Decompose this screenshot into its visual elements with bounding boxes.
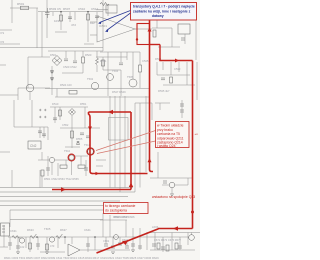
svg-text:472: 472 [71, 23, 76, 27]
wire [87, 237, 89, 252]
svg-text:R561 C562 R563 T512 R565: R561 C562 R563 T512 R565 [44, 177, 79, 181]
resistor R23 [46, 244, 49, 250]
svg-text:R637: R637 [60, 228, 67, 232]
capacitor C24 [84, 168, 88, 170]
resistor R3 [87, 14, 90, 20]
wire [74, 51, 76, 60]
terminal TP1 [189, 235, 195, 241]
arrowhead up on V1 top [148, 28, 152, 32]
svg-text:R555: R555 [76, 137, 83, 141]
highlight circle Q5 [68, 154, 75, 161]
red blob on rect edge [136, 38, 138, 40]
capacitor C25 [8, 243, 12, 245]
resistor R13 [78, 165, 85, 168]
svg-text:zasilanie ku wizji, inne i nas: zasilanie ku wizji, inne i następnie z [133, 9, 191, 13]
blue arrow 2 [107, 13, 131, 31]
ground [111, 252, 115, 254]
svg-text:T505: T505 [127, 75, 134, 79]
wire [103, 57, 121, 70]
wire [56, 89, 58, 98]
IF amplifier triangle [90, 3, 152, 43]
wire [39, 127, 41, 138]
capacitor C10 [42, 134, 46, 136]
wire mid-left [28, 56, 50, 58]
wire [69, 12, 71, 22]
arrowhead right on H6 [61, 187, 66, 191]
svg-text:C545: C545 [142, 59, 149, 63]
ground [45, 252, 49, 254]
svg-text:R503 C5: R503 C5 [49, 7, 61, 11]
capacitor C4 [64, 59, 68, 61]
svg-text:R601 C603 T601 R605 C607 D602: R601 C603 T601 R605 C607 D602 R609 C611 … [4, 256, 159, 260]
wire [107, 4, 109, 16]
resistor R14 [41, 170, 44, 176]
arrowhead left on H5 [108, 110, 113, 114]
ground [131, 250, 135, 252]
wire [94, 237, 96, 250]
resistor R19 [166, 245, 169, 251]
capacitor C3 [95, 16, 99, 18]
wire [46, 0, 48, 30]
capacitor C28 [86, 244, 90, 246]
bus wire 2 [0, 191, 135, 193]
zigzag resistor R15 [12, 236, 20, 239]
resistor R22 [29, 243, 32, 249]
svg-text:102: 102 [20, 245, 25, 249]
wire [134, 103, 136, 192]
wire [124, 118, 126, 188]
wire [139, 72, 141, 88]
svg-text:C520 C522: C520 C522 [63, 65, 77, 69]
svg-text:T605: T605 [44, 227, 51, 231]
arrowhead left on H3 [173, 226, 178, 230]
wire [179, 237, 181, 250]
svg-text:1k2: 1k2 [90, 21, 95, 25]
wire [14, 126, 48, 128]
arrowhead up on V5 [129, 183, 133, 188]
wire [150, 249, 195, 251]
svg-text:C510: C510 [78, 7, 86, 11]
capacitor C2 [68, 17, 72, 19]
wire [84, 107, 86, 128]
wire [40, 251, 65, 253]
wire [96, 160, 106, 166]
annotation wire V1 from note box down [150, 21, 154, 172]
wire [41, 152, 43, 160]
capacitor C22 [138, 246, 142, 248]
wire [96, 12, 98, 20]
wire [41, 12, 43, 48]
bus wire 5 [0, 205, 110, 207]
transistor Q5 [69, 155, 74, 160]
capacitor C12 [80, 133, 84, 135]
annotation wire H5 [89, 111, 132, 113]
capacitor C7 [161, 78, 165, 80]
resistor R18 [157, 243, 160, 249]
svg-text:datowy: datowy [152, 14, 164, 18]
wire [11, 0, 13, 23]
wire [124, 96, 126, 118]
svg-text:D501: D501 [50, 53, 57, 57]
wire [171, 28, 173, 47]
wire [162, 184, 169, 186]
label row bottom [4, 215, 159, 260]
wire [62, 63, 83, 73]
capacitor C18 [111, 246, 115, 248]
wire [51, 66, 53, 95]
bridge rectifier D1 [52, 56, 62, 66]
connector box J2 [1, 223, 10, 236]
wire psu mid rail [50, 106, 88, 108]
annotation wire H3 [158, 228, 193, 230]
wire [71, 160, 73, 175]
wire [135, 102, 152, 104]
bridge X D4 [69, 109, 76, 116]
wire [139, 52, 141, 65]
wire [126, 52, 128, 60]
wire psu top rail [48, 50, 103, 52]
wire top rail [38, 11, 103, 13]
wire [0, 43, 20, 45]
transistor Q10 [49, 237, 54, 242]
svg-text:C552: C552 [62, 123, 69, 127]
svg-text:R547 R549: R547 R549 [112, 90, 126, 94]
leader line 2 to note 2 [97, 141, 156, 154]
capacitor C13 [86, 136, 90, 138]
wire upper right block [152, 27, 172, 29]
wire [195, 20, 197, 60]
svg-text:i wstaw Q24: i wstaw Q24 [157, 144, 176, 148]
capacitor C30 [161, 247, 165, 249]
capacitor C20 [125, 246, 129, 248]
wire [51, 163, 53, 176]
svg-text:R524 100: R524 100 [60, 83, 72, 87]
wire [100, 249, 130, 251]
svg-text:C631: C631 [10, 229, 17, 233]
wire [0, 64, 6, 66]
bus wire 1 [0, 187, 133, 189]
wire [159, 103, 161, 110]
resistor R6 [69, 91, 77, 95]
svg-text:C671 R673 C675 R677: C671 R673 C675 R677 [154, 238, 182, 242]
wire [119, 237, 121, 243]
wire [112, 237, 114, 246]
ground [170, 194, 174, 196]
svg-text:T502: T502 [87, 77, 94, 81]
svg-text:R651 C653 D606: R651 C653 D606 [113, 215, 135, 219]
wire [175, 184, 188, 186]
wire [29, 92, 31, 100]
wire [90, 155, 92, 172]
wire [163, 84, 195, 86]
arrowhead up on V1 bottom [148, 158, 152, 162]
svg-text:103: 103 [54, 19, 59, 23]
wire [119, 96, 121, 118]
transistor Q9 [19, 238, 24, 243]
note box 2 middle right [156, 122, 199, 149]
wire bottom left edge [0, 225, 8, 247]
svg-text:R633: R633 [27, 228, 34, 232]
capacitor C21 [131, 244, 135, 246]
wire [18, 87, 50, 89]
wire [145, 96, 147, 172]
resistor R4 [82, 57, 85, 63]
wire [46, 30, 48, 38]
svg-text:T510: T510 [64, 149, 71, 153]
wire [47, 156, 49, 176]
zigzag resistor R16 [30, 234, 36, 239]
wire [80, 156, 82, 165]
wire [109, 215, 111, 237]
wire [25, 237, 27, 248]
svg-text:R541: R541 [100, 59, 107, 63]
annotation wire H2 [159, 60, 192, 62]
wire grid verticals centre [109, 96, 111, 188]
svg-text:T504: T504 [112, 69, 119, 73]
svg-text:R535 4k7: R535 4k7 [158, 89, 170, 93]
annotation wire H1 [150, 44, 161, 46]
connector box J1 [28, 141, 41, 149]
capacitor C26 [16, 246, 20, 248]
wire [157, 152, 159, 178]
wire [17, 88, 19, 100]
wire [171, 188, 173, 194]
transistor Q6 [88, 149, 94, 155]
label row top [1, 2, 99, 44]
wire [96, 65, 98, 72]
wire bottom centre [102, 213, 104, 237]
wire [65, 146, 80, 148]
wire [41, 176, 43, 187]
svg-text:473: 473 [50, 244, 55, 248]
svg-text:C661: C661 [103, 239, 110, 243]
wire [114, 96, 116, 112]
resistor R5 zigzag [96, 58, 99, 65]
wire bottom rail [8, 236, 188, 238]
note box 3 bottom centre [104, 203, 149, 220]
capacitor C27 [36, 244, 40, 246]
capacitor C11 [53, 118, 57, 120]
wire [162, 62, 164, 70]
capacitor C5 [73, 61, 77, 63]
capacitor C19 [118, 243, 122, 245]
wire [139, 103, 141, 188]
wire [41, 48, 43, 57]
svg-text:P1: P1 [1, 31, 5, 35]
annotation wire V2 [159, 45, 161, 61]
resistor R10 [59, 110, 62, 116]
wire [38, 159, 49, 161]
bus wire 3 [0, 196, 128, 198]
leader line to note 2 [96, 131, 156, 151]
wire [36, 8, 38, 48]
svg-text:C641: C641 [84, 228, 91, 232]
node dot on V3 [191, 211, 194, 214]
zigzag resistor R17 [56, 234, 62, 239]
wire [57, 237, 59, 248]
wire [74, 12, 76, 20]
capacitor C15 [180, 110, 184, 112]
wire [80, 249, 100, 251]
transistor Q2 [91, 82, 98, 89]
wire [82, 51, 84, 57]
wire [60, 12, 62, 24]
capacitor C14 [180, 104, 184, 106]
wire [107, 52, 109, 96]
wire centre block [100, 51, 140, 53]
wire [132, 228, 134, 250]
wire [178, 62, 180, 72]
transistor Q11 [114, 235, 119, 240]
polarity marks [39, 109, 46, 118]
wire [90, 22, 97, 35]
wire [47, 127, 49, 140]
transistor Q8 [169, 182, 175, 188]
wire [9, 237, 11, 250]
wire top-left horizontal [10, 7, 38, 9]
svg-text:to tkrzego czerkanie: to tkrzego czerkanie [105, 204, 135, 208]
highlight rectangle on tuner [137, 24, 150, 45]
wire right lower block [150, 177, 192, 179]
transistor Q7 [49, 157, 54, 162]
arrowhead on diagonal [122, 241, 128, 246]
wire [96, 51, 98, 58]
wire [102, 0, 104, 51]
arrowhead down on V4 [88, 127, 92, 131]
transistor Q3 [107, 74, 114, 81]
svg-text:R507: R507 [63, 7, 71, 11]
annotation wire H6 [52, 189, 131, 191]
wire [9, 210, 11, 227]
diode D5 [77, 141, 80, 145]
svg-text:tranzystory Q,4,1 i 7 - podejr: tranzystory Q,4,1 i 7 - podejrz napięcie [133, 5, 195, 9]
arrowhead right on H4 [96, 172, 100, 176]
wire [31, 100, 33, 127]
wire [65, 160, 67, 165]
wire [139, 228, 141, 250]
svg-text:R551: R551 [80, 102, 87, 106]
wire [85, 160, 87, 176]
wire [64, 237, 66, 244]
bus wire 4 [0, 200, 120, 202]
wire [59, 107, 61, 120]
resistor R7 [153, 30, 156, 37]
bus wire 7 [10, 219, 103, 221]
note box 1 top right [98, 3, 197, 33]
node dot [87, 11, 89, 13]
svg-text:R520: R520 [85, 53, 92, 57]
wire [171, 233, 173, 251]
capacitor C8 [119, 63, 123, 65]
op-amp U3 [68, 244, 80, 256]
connector pins [2, 226, 5, 232]
arrowhead right on H2 [175, 59, 179, 63]
svg-text:+x: +x [195, 132, 199, 136]
wire [196, 62, 198, 100]
svg-text:CN2: CN2 [30, 144, 37, 148]
annotation wire V3 right side [192, 61, 194, 229]
annotation wire V5 [130, 112, 132, 190]
capacitor C31 [178, 246, 182, 248]
resistor R24 [102, 60, 105, 66]
wire [187, 233, 189, 246]
wire long horizontal 2 [60, 47, 103, 49]
wire [156, 20, 158, 28]
wire [120, 70, 122, 96]
wire [55, 159, 69, 161]
wire [52, 12, 54, 16]
wire bottom rail 2 [150, 232, 200, 234]
wire [0, 94, 18, 96]
resistor R12 [60, 165, 67, 168]
wire [54, 107, 56, 123]
wire [55, 96, 150, 98]
wire [119, 118, 121, 192]
wire [27, 57, 29, 88]
wire [125, 220, 127, 237]
resistor R9 [139, 65, 142, 72]
svg-text:IC501: IC501 [99, 24, 107, 28]
wire [57, 163, 59, 176]
wire [155, 102, 170, 104]
component box [106, 5, 117, 13]
wire [114, 112, 116, 188]
annotation diagonal wire D [97, 229, 159, 253]
wire [71, 237, 73, 244]
capacitor C9 [38, 131, 42, 133]
IC box U2 [178, 24, 190, 34]
transistor Q1 [26, 84, 34, 92]
svg-text:D510: D510 [52, 102, 59, 106]
wire [135, 28, 152, 30]
wire [157, 74, 190, 76]
node dot [36, 236, 38, 238]
resistor R8 [170, 77, 173, 83]
capacitor C17 [104, 244, 108, 246]
ground [16, 252, 20, 254]
resistor R2 [60, 15, 63, 21]
wire left mid box [13, 100, 15, 127]
wire long horizontal [0, 47, 60, 49]
wire [39, 170, 41, 188]
node dot [60, 11, 62, 13]
wire long mid horizontal [45, 88, 150, 90]
blue arrow 1 [100, 11, 131, 23]
capacitor C23 [46, 168, 50, 170]
resistor R11 [71, 131, 74, 138]
wire [187, 178, 189, 185]
wire [30, 237, 38, 252]
wire [43, 127, 45, 138]
svg-text:wstawiono na spokojnie Q23: wstawiono na spokojnie Q23 [152, 195, 195, 199]
capacitor C29 [152, 244, 156, 246]
wire [158, 46, 180, 48]
wire [191, 233, 193, 235]
svg-text:C512: C512 [91, 7, 99, 11]
wire [186, 62, 188, 85]
wire [65, 51, 67, 58]
capacitor C6 [181, 38, 185, 40]
svg-text:R501: R501 [17, 2, 25, 6]
annotation wire V4 [89, 112, 93, 174]
wire [146, 232, 148, 250]
wire [46, 237, 48, 252]
resistor R20 [175, 243, 178, 249]
wire [0, 151, 10, 153]
wire [87, 12, 89, 28]
wire [120, 52, 122, 62]
wire [100, 219, 127, 221]
